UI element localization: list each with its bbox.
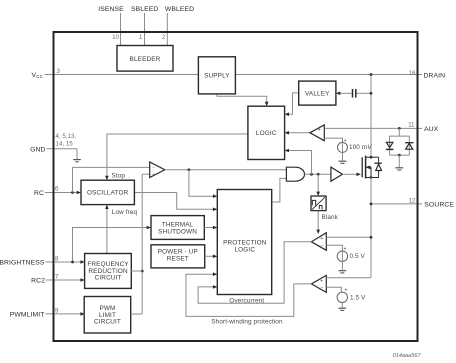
blank block [311,196,326,211]
thermal shutdown block [151,216,204,240]
svg-text:SBLEED: SBLEED [131,6,158,13]
bus vertical wire [141,174,143,314]
svg-text:−: − [320,286,323,292]
svg-text:6: 6 [55,185,59,192]
bleeder block [117,46,173,72]
overcurrent comparator U6 [311,233,326,251]
svg-text:014aaa567: 014aaa567 [393,353,422,359]
rc node vertical wire [72,167,74,192]
pin PWMLIMIT (9) [10,307,85,318]
ground (1.5 V) [338,308,346,310]
svg-text:VALLEY: VALLEY [305,90,330,97]
svg-text:3: 3 [57,68,61,75]
pin VCC (3) [32,68,61,79]
svg-text:RC: RC [34,190,44,197]
svg-text:SHUTDOWN: SHUTDOWN [158,229,197,236]
svg-text:8: 8 [55,255,59,262]
svg-text:RESET: RESET [167,255,189,262]
thermal output wire [204,227,214,229]
svg-text:−: − [152,165,155,170]
svg-text:1: 1 [139,34,143,41]
ground (100 mV) [339,161,347,163]
svg-text:−: − [320,244,323,250]
short-winding - input wire [326,287,341,292]
svg-text:7: 7 [55,274,59,281]
pin SBLEED (1) [131,6,158,46]
svg-text:1.5 V: 1.5 V [350,294,366,301]
pwm limit output wire [131,313,143,315]
wire brightness node to thermal shutdown [73,228,149,263]
arrow into oscillator [77,191,81,195]
svg-text:SOURCE: SOURCE [424,202,454,209]
overcurrent comparator + input wire [326,236,371,238]
logic block [248,106,285,159]
supply to logic wire [217,94,267,103]
valley input wire and capacitor [336,89,373,98]
valley block [299,81,336,105]
pin SOURCE (12) [370,197,455,208]
overcurrent comparator - input wire [326,245,342,251]
svg-text:Overcurrent: Overcurrent [229,298,264,305]
buffer output wire to AND gate [165,169,287,171]
svg-text:+: + [344,138,347,144]
gate wire [342,173,358,175]
outer IC boundary [54,32,418,341]
node buffer output junction [188,168,191,171]
power-up reset block [151,245,205,268]
node RC junction [71,191,74,194]
svg-text:DRAIN: DRAIN [424,72,446,79]
svg-text:LOGIC: LOGIC [234,246,255,253]
svg-text:SUPPLY: SUPPLY [204,73,230,80]
svg-text:CIRCUIT: CIRCUIT [94,319,121,326]
freq reduction output wire [131,270,142,272]
svg-text:RC2: RC2 [31,277,45,284]
svg-text:+: + [152,172,155,177]
and gate output wire [305,173,331,175]
aux comparator output wire to logic [288,132,310,134]
svg-text:+: + [344,247,347,253]
svg-text:PWMLIMIT: PWMLIMIT [10,311,45,318]
svg-text:16: 16 [409,70,416,77]
pin DRAIN (16) [409,70,446,80]
oscillator output wire to protection logic [134,193,214,210]
svg-text:+: + [320,278,323,284]
svg-text:14, 15: 14, 15 [56,141,74,148]
oscillator block [81,180,134,204]
svg-text:AUX: AUX [424,126,439,133]
svg-text:+: + [318,127,321,133]
rc to comparator wire [73,166,150,168]
blank strobe wire [317,174,319,193]
0.5 V reference [337,247,365,271]
low freq wire from frequency reduction to oscillator [106,207,108,253]
drain vertical wire [370,75,372,158]
rc comparator U2 [150,162,165,178]
pin BRIGHTNESS (8) [0,255,85,266]
short-winding comparator U7 [311,275,326,292]
svg-text:2: 2 [162,34,166,41]
pin GND (4,5,13,14,15) [30,133,77,153]
svg-text:0.5 V: 0.5 V [350,253,366,260]
pwm limit block [84,297,131,334]
supply block [198,57,235,94]
source vertical wire [370,178,372,278]
svg-text:Short-winding protection: Short-winding protection [211,318,283,325]
pin RC (6) [34,185,79,197]
svg-text:ISENSE: ISENSE [98,6,124,13]
gate driver buffer U5 [331,167,343,181]
protection logic output to and gate [272,178,287,202]
bus to comparator lower input wire [142,173,150,175]
ground (aux clamp) [395,168,403,170]
protection logic block [217,190,271,295]
outer IC boundary (overdraw on top of pin stubs) [54,32,418,341]
short-winding + input wire [326,277,371,279]
svg-text:LOGIC: LOGIC [256,130,277,137]
short-winding loop wire [186,274,311,316]
pin ISENSE (10) [98,6,124,46]
svg-text:9: 9 [55,307,59,314]
svg-text:10: 10 [112,34,119,41]
ground (0.5 V) [339,271,347,273]
power-up reset output wire [205,255,215,257]
svg-text:4, 5,13,: 4, 5,13, [56,133,77,140]
mosfet body diode [374,157,381,177]
svg-text:GND: GND [30,146,45,153]
valley to logic wire [288,93,299,114]
overcurrent loop wire [198,242,311,303]
mosfet drain/source node dots [370,156,373,159]
svg-text:11: 11 [408,121,415,128]
wire junction to protection logic [189,170,214,196]
svg-text:+: + [345,288,348,294]
feedback wire to logic [288,151,312,175]
aux comparator U4 [310,125,324,141]
svg-text:Blank: Blank [322,214,339,221]
svg-text:BLEEDER: BLEEDER [130,56,161,63]
svg-text:Stop: Stop [112,172,126,179]
VCC rail wire [54,74,418,76]
1.5 V reference [337,288,366,308]
svg-text:100 mV: 100 mV [349,144,372,151]
ground (GND pin) [73,149,81,162]
svg-text:CIRCUIT: CIRCUIT [95,275,122,282]
aux clamp diodes [386,128,414,167]
svg-text:BRIGHTNESS: BRIGHTNESS [0,259,45,266]
frequency reduction block [85,254,132,289]
100 mV reference [324,138,372,161]
svg-text:OSCILLATOR: OSCILLATOR [87,190,129,197]
and gate U3 [286,167,304,181]
svg-text:WBLEED: WBLEED [165,6,194,13]
pin AUX (11) wire [324,121,438,132]
pin RC2 (7) [31,274,85,285]
svg-text:Low freq: Low freq [112,209,138,216]
stop wire from logic to oscillator [107,134,248,177]
pin WBLEED (2) [162,6,194,46]
svg-text:+: + [320,236,323,242]
power mosfet Q1 [362,156,378,179]
svg-text:12: 12 [409,197,416,204]
